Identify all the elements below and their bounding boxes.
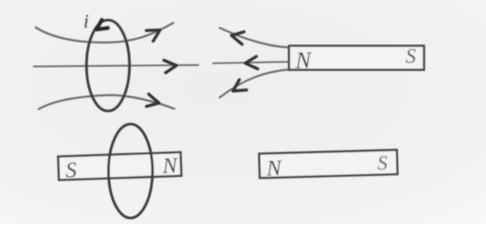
svg-text:i: i	[84, 12, 89, 33]
coil loop (ellipse)	[109, 124, 153, 218]
bottom-right: bar magnet	[259, 150, 398, 181]
bottom-left: bar magnet inside coil loop	[58, 124, 181, 218]
arrowhead middle (points left)	[245, 56, 258, 69]
arrowhead on middle field line	[164, 60, 177, 73]
arrowhead upper (points up-left)	[230, 29, 245, 44]
bar magnet body	[289, 46, 424, 70]
arrowhead on top field line	[146, 25, 163, 42]
svg-text:S: S	[65, 157, 77, 182]
wire: middle field line	[212, 62, 288, 64]
svg-text:N: N	[161, 152, 179, 178]
wire: middle field line	[33, 65, 199, 67]
top-right: bar magnet with field lines entering N pole	[212, 28, 424, 99]
svg-text:S: S	[406, 44, 417, 68]
wire: bottom field line	[38, 95, 175, 110]
wire: top field line	[35, 23, 174, 43]
bar magnet body	[259, 150, 397, 178]
arrowhead on bottom field line	[145, 94, 161, 110]
svg-text:N: N	[295, 48, 313, 73]
current loop (ellipse)	[87, 20, 130, 111]
wire: lower field line	[219, 70, 289, 99]
bar magnet body (slightly tilted)	[58, 152, 181, 182]
svg-text:S: S	[377, 152, 388, 174]
current direction arrowhead on loop	[94, 19, 108, 33]
wire: upper field line	[219, 28, 289, 48]
svg-text:N: N	[265, 155, 283, 180]
arrowhead lower (points down-left)	[230, 79, 247, 96]
top-left: current loop with field lines	[33, 12, 199, 112]
